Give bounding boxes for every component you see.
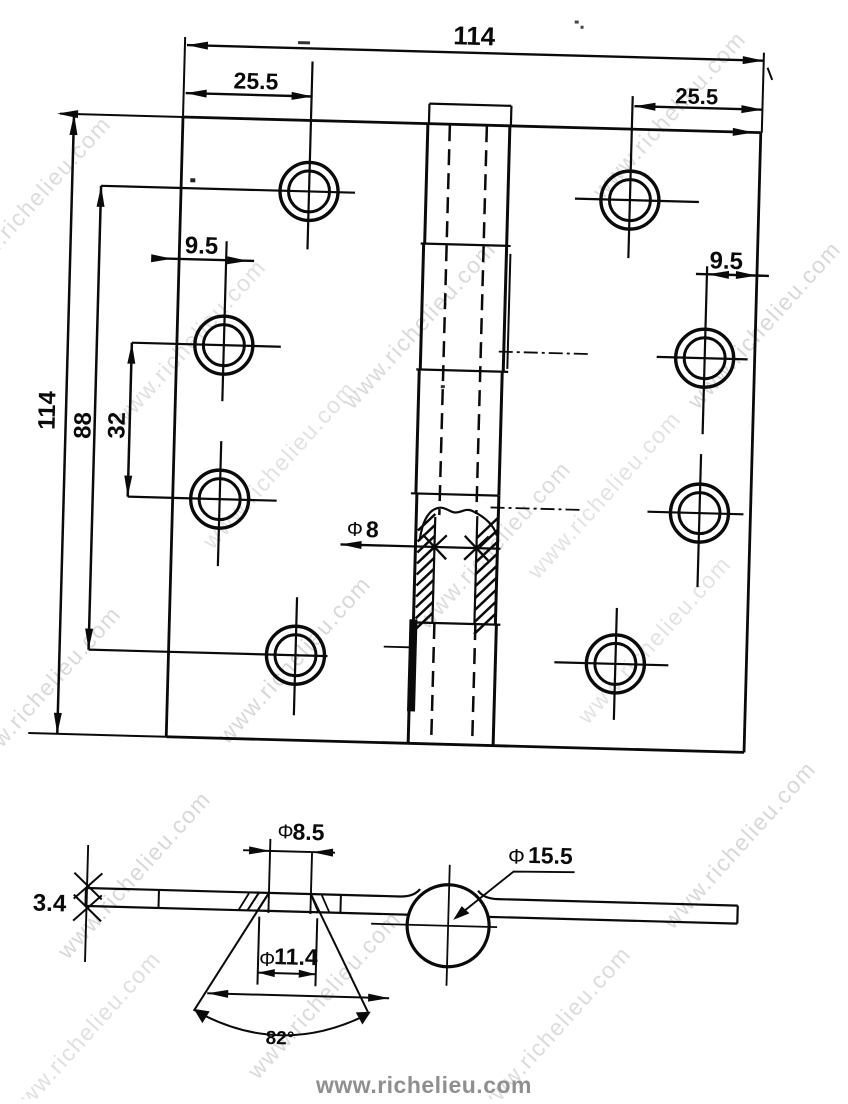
svg-text:15.5: 15.5 <box>528 842 574 869</box>
svg-text:Φ: Φ <box>508 845 525 868</box>
svg-text:8.5: 8.5 <box>292 819 325 846</box>
svg-text:Φ: Φ <box>347 519 364 541</box>
svg-text:25.5: 25.5 <box>233 67 279 94</box>
svg-text:8: 8 <box>366 516 380 542</box>
svg-text:88: 88 <box>69 412 97 439</box>
svg-text:9.5: 9.5 <box>184 232 218 260</box>
svg-text:114: 114 <box>33 390 61 430</box>
svg-text:11.4: 11.4 <box>274 943 318 970</box>
svg-text:82°: 82° <box>265 1028 294 1050</box>
svg-text:www.richelieu.com: www.richelieu.com <box>315 1072 532 1098</box>
svg-text:Φ: Φ <box>277 821 294 843</box>
svg-text:3.4: 3.4 <box>33 890 68 918</box>
svg-text:114: 114 <box>453 20 496 51</box>
svg-text:9.5: 9.5 <box>709 247 743 275</box>
svg-text:25.5: 25.5 <box>675 83 718 109</box>
svg-text:32: 32 <box>103 412 131 439</box>
svg-text:Φ: Φ <box>259 949 276 971</box>
